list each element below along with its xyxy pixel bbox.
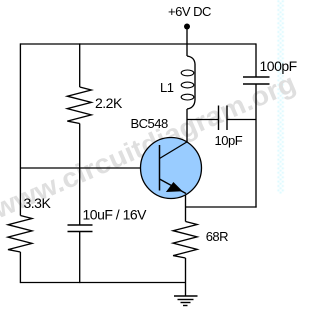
svg-text:10pF: 10pF bbox=[215, 133, 243, 148]
wire base horizontal bbox=[20, 167, 159, 169]
transistor emitter line bbox=[160, 179, 187, 194]
svg-text:BC548: BC548 bbox=[131, 116, 169, 131]
svg-text:68R: 68R bbox=[206, 229, 228, 244]
capacitor C 10pF plate left bbox=[218, 106, 220, 131]
wire middle vertical mid bbox=[79, 124, 81, 226]
svg-text:10uF / 16V: 10uF / 16V bbox=[83, 207, 148, 223]
wire emitter vertical bbox=[185, 193, 187, 222]
svg-text:3.3K: 3.3K bbox=[24, 195, 52, 211]
svg-text:L1: L1 bbox=[160, 80, 174, 95]
wire 10pF right bbox=[227, 119, 256, 121]
svg-text:100pF: 100pF bbox=[260, 58, 297, 74]
wire emitter to right rail bbox=[186, 206, 257, 208]
wire to ground bbox=[185, 258, 187, 296]
wire left rail upper bbox=[19, 43, 21, 215]
node +6V dot bbox=[184, 24, 190, 30]
capacitor C 10uF plate top bbox=[68, 224, 93, 226]
resistor R 2.2K zigzag bbox=[67, 87, 91, 124]
resistor R 3.3K zigzag bbox=[8, 216, 32, 253]
wire top rail bbox=[20, 43, 256, 45]
wire left rail lower bbox=[19, 252, 21, 283]
transistor base bar bbox=[159, 145, 161, 191]
transistor collector line bbox=[160, 142, 187, 159]
wire right rail lower bbox=[255, 84, 257, 208]
inductor L1 coil bbox=[187, 56, 195, 109]
transistor Q1 BC548 body bbox=[141, 138, 202, 199]
wire 10pF left bbox=[187, 119, 219, 121]
wire middle vertical upper bbox=[79, 43, 81, 87]
capacitor C 10uF plate bottom bbox=[68, 231, 93, 233]
wire collector vertical bbox=[186, 109, 188, 143]
svg-text:+6V DC: +6V DC bbox=[168, 4, 211, 19]
wire middle vertical lower bbox=[79, 232, 81, 284]
transistor emitter arrow bbox=[166, 182, 183, 192]
ground symbol bbox=[174, 295, 198, 297]
svg-text:2.2K: 2.2K bbox=[95, 95, 123, 111]
wire +6V feed bbox=[186, 27, 188, 56]
wire bottom rail bbox=[20, 282, 185, 284]
capacitor C 100pF plate top bbox=[243, 76, 270, 78]
decorative dotted strip bbox=[277, 0, 283, 193]
wire right rail upper bbox=[255, 43, 257, 77]
resistor R 68R zigzag bbox=[173, 222, 197, 259]
capacitor C 100pF plate bottom bbox=[243, 83, 270, 85]
capacitor C 10pF plate right bbox=[226, 106, 228, 131]
